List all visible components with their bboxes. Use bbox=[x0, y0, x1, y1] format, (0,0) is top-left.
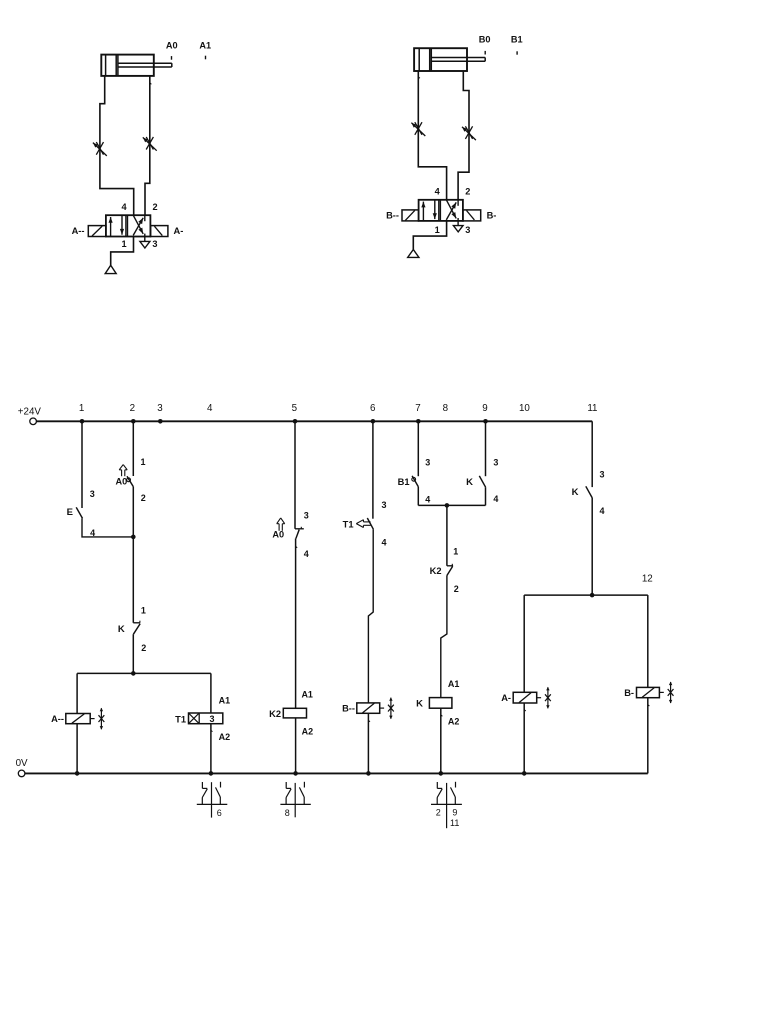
label A1 (position mark) bbox=[199, 40, 211, 59]
svg-text:4: 4 bbox=[493, 494, 498, 504]
svg-text:B0: B0 bbox=[479, 35, 491, 45]
svg-text:E: E bbox=[67, 507, 73, 518]
solenoid coil A-- bbox=[66, 714, 90, 724]
compressed air supply A (triangle) bbox=[105, 265, 116, 273]
svg-text:11: 11 bbox=[450, 818, 459, 828]
svg-text:2: 2 bbox=[436, 808, 441, 818]
junction on 0V rail bbox=[439, 771, 444, 776]
wire K coil to 0V rail bbox=[441, 708, 443, 773]
pipe cylinder A left port to valve port 4 bbox=[100, 76, 134, 215]
svg-text:A0: A0 bbox=[272, 530, 284, 540]
solenoid symbol right of A- bbox=[537, 687, 551, 709]
svg-text:T1: T1 bbox=[175, 715, 186, 725]
flow control valve (A right) bbox=[143, 137, 157, 151]
svg-text:B--: B-- bbox=[386, 211, 399, 221]
junction on 0V rail bbox=[75, 771, 80, 776]
svg-text:A2: A2 bbox=[302, 727, 314, 737]
limit switch contact A0 (NC 1-2) bbox=[127, 476, 134, 486]
svg-text:A-: A- bbox=[174, 226, 184, 236]
timer contact T1 (NO 3-4) bbox=[367, 518, 373, 529]
valve A exhaust triangle (port 3) bbox=[140, 241, 150, 248]
wire split to solenoid B- bbox=[647, 595, 649, 687]
svg-text:1: 1 bbox=[141, 606, 146, 616]
solenoid symbol right of B-- bbox=[380, 697, 394, 719]
flow control valve (B left) bbox=[411, 122, 425, 136]
wire rung5 from +24V rail bbox=[294, 421, 296, 529]
solenoid symbol right of A-- bbox=[90, 708, 104, 730]
junction on +24V rail bbox=[371, 419, 376, 424]
4/2-way double solenoid valve B body bbox=[419, 200, 463, 221]
wire rung11 from +24V rail bbox=[591, 421, 593, 487]
wire branch rung2 split bbox=[77, 672, 211, 674]
svg-text:3: 3 bbox=[425, 458, 430, 468]
junction on 0V rail bbox=[209, 771, 214, 776]
svg-text:B-: B- bbox=[487, 211, 497, 221]
svg-text:B1: B1 bbox=[398, 477, 410, 487]
wire A0 to junction bbox=[132, 487, 134, 537]
svg-text:4: 4 bbox=[207, 403, 213, 414]
svg-text:3: 3 bbox=[304, 511, 309, 521]
svg-text:3: 3 bbox=[465, 225, 470, 235]
svg-text:K2: K2 bbox=[269, 709, 281, 719]
junction on 0V rail bbox=[366, 771, 371, 776]
junction node rung8 bbox=[445, 503, 450, 508]
svg-text:A--: A-- bbox=[72, 226, 85, 236]
svg-text:A--: A-- bbox=[51, 714, 64, 724]
wire T1 contact to solenoid B-- bbox=[368, 529, 373, 703]
svg-text:3: 3 bbox=[209, 714, 214, 724]
svg-text:6: 6 bbox=[370, 403, 376, 414]
+24V supply rail bbox=[36, 420, 592, 422]
valve A left position parallel arrows bbox=[109, 215, 125, 236]
svg-text:1: 1 bbox=[435, 225, 440, 235]
junction on 0V rail bbox=[522, 771, 527, 776]
0V terminal bbox=[18, 770, 25, 777]
label B1 (position mark) bbox=[511, 35, 523, 55]
wire rung9 from +24V rail bbox=[485, 421, 487, 476]
valve B exhaust triangle (port 3) bbox=[453, 226, 463, 232]
svg-text:2: 2 bbox=[465, 186, 470, 196]
svg-text:4: 4 bbox=[425, 495, 430, 505]
junction on +24V rail bbox=[483, 419, 488, 424]
junction node branch bbox=[131, 671, 136, 676]
svg-text:12: 12 bbox=[642, 574, 653, 585]
svg-text:3: 3 bbox=[157, 403, 163, 414]
svg-text:4: 4 bbox=[435, 186, 441, 196]
svg-text:7: 7 bbox=[415, 403, 420, 414]
4/2-way double solenoid valve A body bbox=[106, 215, 150, 236]
actuation arrow of A0 (rung5) bbox=[277, 518, 285, 531]
wire split to solenoid A- bbox=[523, 595, 525, 692]
contact mirror of K2 bbox=[280, 782, 310, 818]
timer relay T1 (on-delay, 3s) bbox=[189, 713, 223, 724]
svg-text:A2: A2 bbox=[219, 732, 231, 742]
svg-text:2: 2 bbox=[152, 202, 157, 212]
wire contact K to branch node bbox=[132, 634, 134, 673]
svg-text:9: 9 bbox=[482, 403, 487, 414]
junction on 0V rail bbox=[293, 771, 298, 776]
svg-text:1: 1 bbox=[121, 239, 126, 249]
svg-text:K: K bbox=[118, 624, 125, 635]
wire A-- to 0V rail bbox=[76, 724, 78, 774]
svg-text:K: K bbox=[416, 698, 423, 709]
svg-text:1: 1 bbox=[453, 547, 458, 557]
svg-text:K: K bbox=[466, 477, 473, 488]
valve A pilot solenoid left (A--) bbox=[88, 226, 106, 237]
wire node to contact K2 bbox=[446, 505, 448, 565]
junction on +24V rail bbox=[293, 419, 298, 424]
svg-text:1: 1 bbox=[79, 403, 84, 414]
svg-text:2: 2 bbox=[454, 584, 459, 594]
svg-text:10: 10 bbox=[519, 403, 530, 414]
valve B right position crossed arrows bbox=[446, 200, 458, 226]
wire K rung11 down to split node bbox=[591, 498, 593, 595]
wire K2 contact to coil K bbox=[441, 576, 447, 698]
svg-text:0V: 0V bbox=[16, 758, 28, 769]
wire A- to 0V rail bbox=[524, 703, 526, 773]
svg-text:4: 4 bbox=[599, 506, 604, 516]
pipe valve B port 1 to supply bbox=[413, 221, 446, 250]
label B0 (position mark) bbox=[479, 35, 491, 55]
cylinder A (double-acting) bbox=[101, 55, 172, 76]
svg-text:2: 2 bbox=[130, 403, 135, 414]
junction node rung11 split bbox=[590, 593, 595, 598]
wire branch to solenoid A-- bbox=[76, 673, 78, 713]
label A0 (position mark) bbox=[166, 40, 178, 59]
wire rung6 from +24V rail bbox=[372, 421, 374, 518]
svg-text:A0: A0 bbox=[116, 477, 128, 487]
svg-text:3: 3 bbox=[599, 469, 604, 479]
relay contact K (NO 3-4, rung11) bbox=[586, 486, 593, 498]
valve A right position crossed arrows bbox=[133, 215, 145, 241]
svg-text:A1: A1 bbox=[448, 679, 460, 689]
wire E to node at rung2 bbox=[82, 518, 133, 537]
relay coil K bbox=[429, 698, 452, 709]
pipe valve A port 1 to supply bbox=[111, 237, 134, 266]
junction on +24V rail bbox=[158, 419, 163, 424]
relay contact K (NC 1-2) bbox=[133, 621, 140, 635]
svg-text:A1: A1 bbox=[199, 40, 211, 50]
svg-text:5: 5 bbox=[292, 403, 298, 414]
valve B pilot solenoid left (B--) bbox=[402, 210, 419, 221]
svg-text:T1: T1 bbox=[343, 520, 354, 530]
wire split rung10-rung12 bbox=[524, 594, 648, 596]
svg-text:2: 2 bbox=[141, 493, 146, 503]
svg-text:4: 4 bbox=[121, 202, 127, 212]
svg-text:3: 3 bbox=[152, 239, 157, 249]
svg-text:1: 1 bbox=[140, 457, 145, 467]
actuation arrow of A0 bbox=[119, 465, 127, 477]
wire K2 to 0V rail bbox=[295, 718, 297, 774]
svg-text:+24V: +24V bbox=[18, 407, 42, 418]
svg-text:8: 8 bbox=[285, 808, 290, 818]
wire A0 to coil K2 bbox=[296, 539, 298, 709]
svg-text:A-: A- bbox=[501, 693, 511, 703]
svg-text:3: 3 bbox=[90, 489, 95, 499]
relay contact K (NO 3-4, rung9) bbox=[479, 476, 485, 487]
wire T1 to 0V rail bbox=[211, 724, 213, 774]
solenoid symbol right of B- bbox=[659, 682, 673, 704]
wire rung7 from +24V rail bbox=[417, 421, 419, 476]
svg-text:A1: A1 bbox=[219, 695, 231, 705]
svg-text:2: 2 bbox=[141, 643, 146, 653]
pipe cylinder B right port to valve port 2 bbox=[458, 71, 469, 200]
contact mirror of K bbox=[431, 782, 462, 828]
svg-text:9: 9 bbox=[452, 808, 457, 818]
svg-text:A1: A1 bbox=[301, 690, 313, 700]
valve A pilot solenoid right (A-) bbox=[151, 226, 168, 237]
svg-text:A2: A2 bbox=[448, 716, 460, 726]
svg-text:B--: B-- bbox=[342, 703, 355, 713]
limit switch contact A0 (NO 3-4) bbox=[295, 527, 304, 539]
limit switch contact B1 (NO 3-4) bbox=[412, 476, 419, 487]
flow control valve (A left) bbox=[93, 142, 107, 156]
+24V terminal bbox=[30, 418, 37, 425]
svg-text:B1: B1 bbox=[511, 35, 523, 45]
svg-text:3: 3 bbox=[493, 457, 498, 467]
solenoid coil A- bbox=[513, 692, 537, 703]
wire branch to timer T1 bbox=[210, 673, 212, 713]
solenoid coil B- bbox=[637, 687, 660, 697]
svg-text:11: 11 bbox=[587, 403, 597, 414]
svg-text:6: 6 bbox=[217, 808, 222, 818]
wire node rung7-rung9 bbox=[418, 504, 485, 506]
timer actuation arrow of T1 bbox=[356, 520, 370, 528]
wire B-- to 0V rail bbox=[368, 713, 370, 773]
solenoid coil B-- bbox=[357, 703, 380, 713]
wire B1 to node bbox=[417, 487, 419, 506]
cylinder B (double-acting) bbox=[414, 48, 485, 71]
contact mirror of T1 bbox=[197, 782, 228, 818]
svg-text:A0: A0 bbox=[166, 40, 178, 50]
svg-text:K2: K2 bbox=[430, 566, 442, 576]
switch E (NO contact) bbox=[76, 507, 82, 518]
pipe cylinder A right port to valve port 2 bbox=[145, 76, 151, 215]
wire K rung9 to node bbox=[485, 487, 487, 505]
compressed air supply B (triangle) bbox=[408, 250, 419, 258]
svg-text:4: 4 bbox=[304, 549, 309, 559]
junction on +24V rail bbox=[80, 419, 85, 424]
junction node rung2 bbox=[131, 535, 136, 540]
svg-text:K: K bbox=[572, 487, 579, 498]
relay coil K2 bbox=[283, 708, 306, 718]
svg-text:3: 3 bbox=[381, 500, 386, 510]
flow control valve (B right) bbox=[462, 126, 476, 140]
wire junction to contact K bbox=[132, 537, 134, 623]
pipe cylinder B left port to valve port 4 bbox=[418, 71, 446, 200]
relay contact K2 (NC 1-2) bbox=[447, 564, 453, 576]
svg-text:8: 8 bbox=[443, 403, 449, 414]
0V return rail bbox=[25, 772, 648, 774]
valve B left position parallel arrows bbox=[421, 200, 437, 221]
wire rung1 from +24V rail bbox=[81, 421, 83, 508]
svg-text:B-: B- bbox=[624, 688, 634, 698]
wire B- to 0V rail bbox=[648, 698, 650, 774]
valve B pilot solenoid right (B-) bbox=[463, 210, 481, 221]
wire rung2 from +24V rail bbox=[132, 421, 134, 476]
svg-text:4: 4 bbox=[381, 537, 386, 547]
junction on +24V rail bbox=[131, 419, 136, 424]
junction on +24V rail bbox=[416, 419, 421, 424]
